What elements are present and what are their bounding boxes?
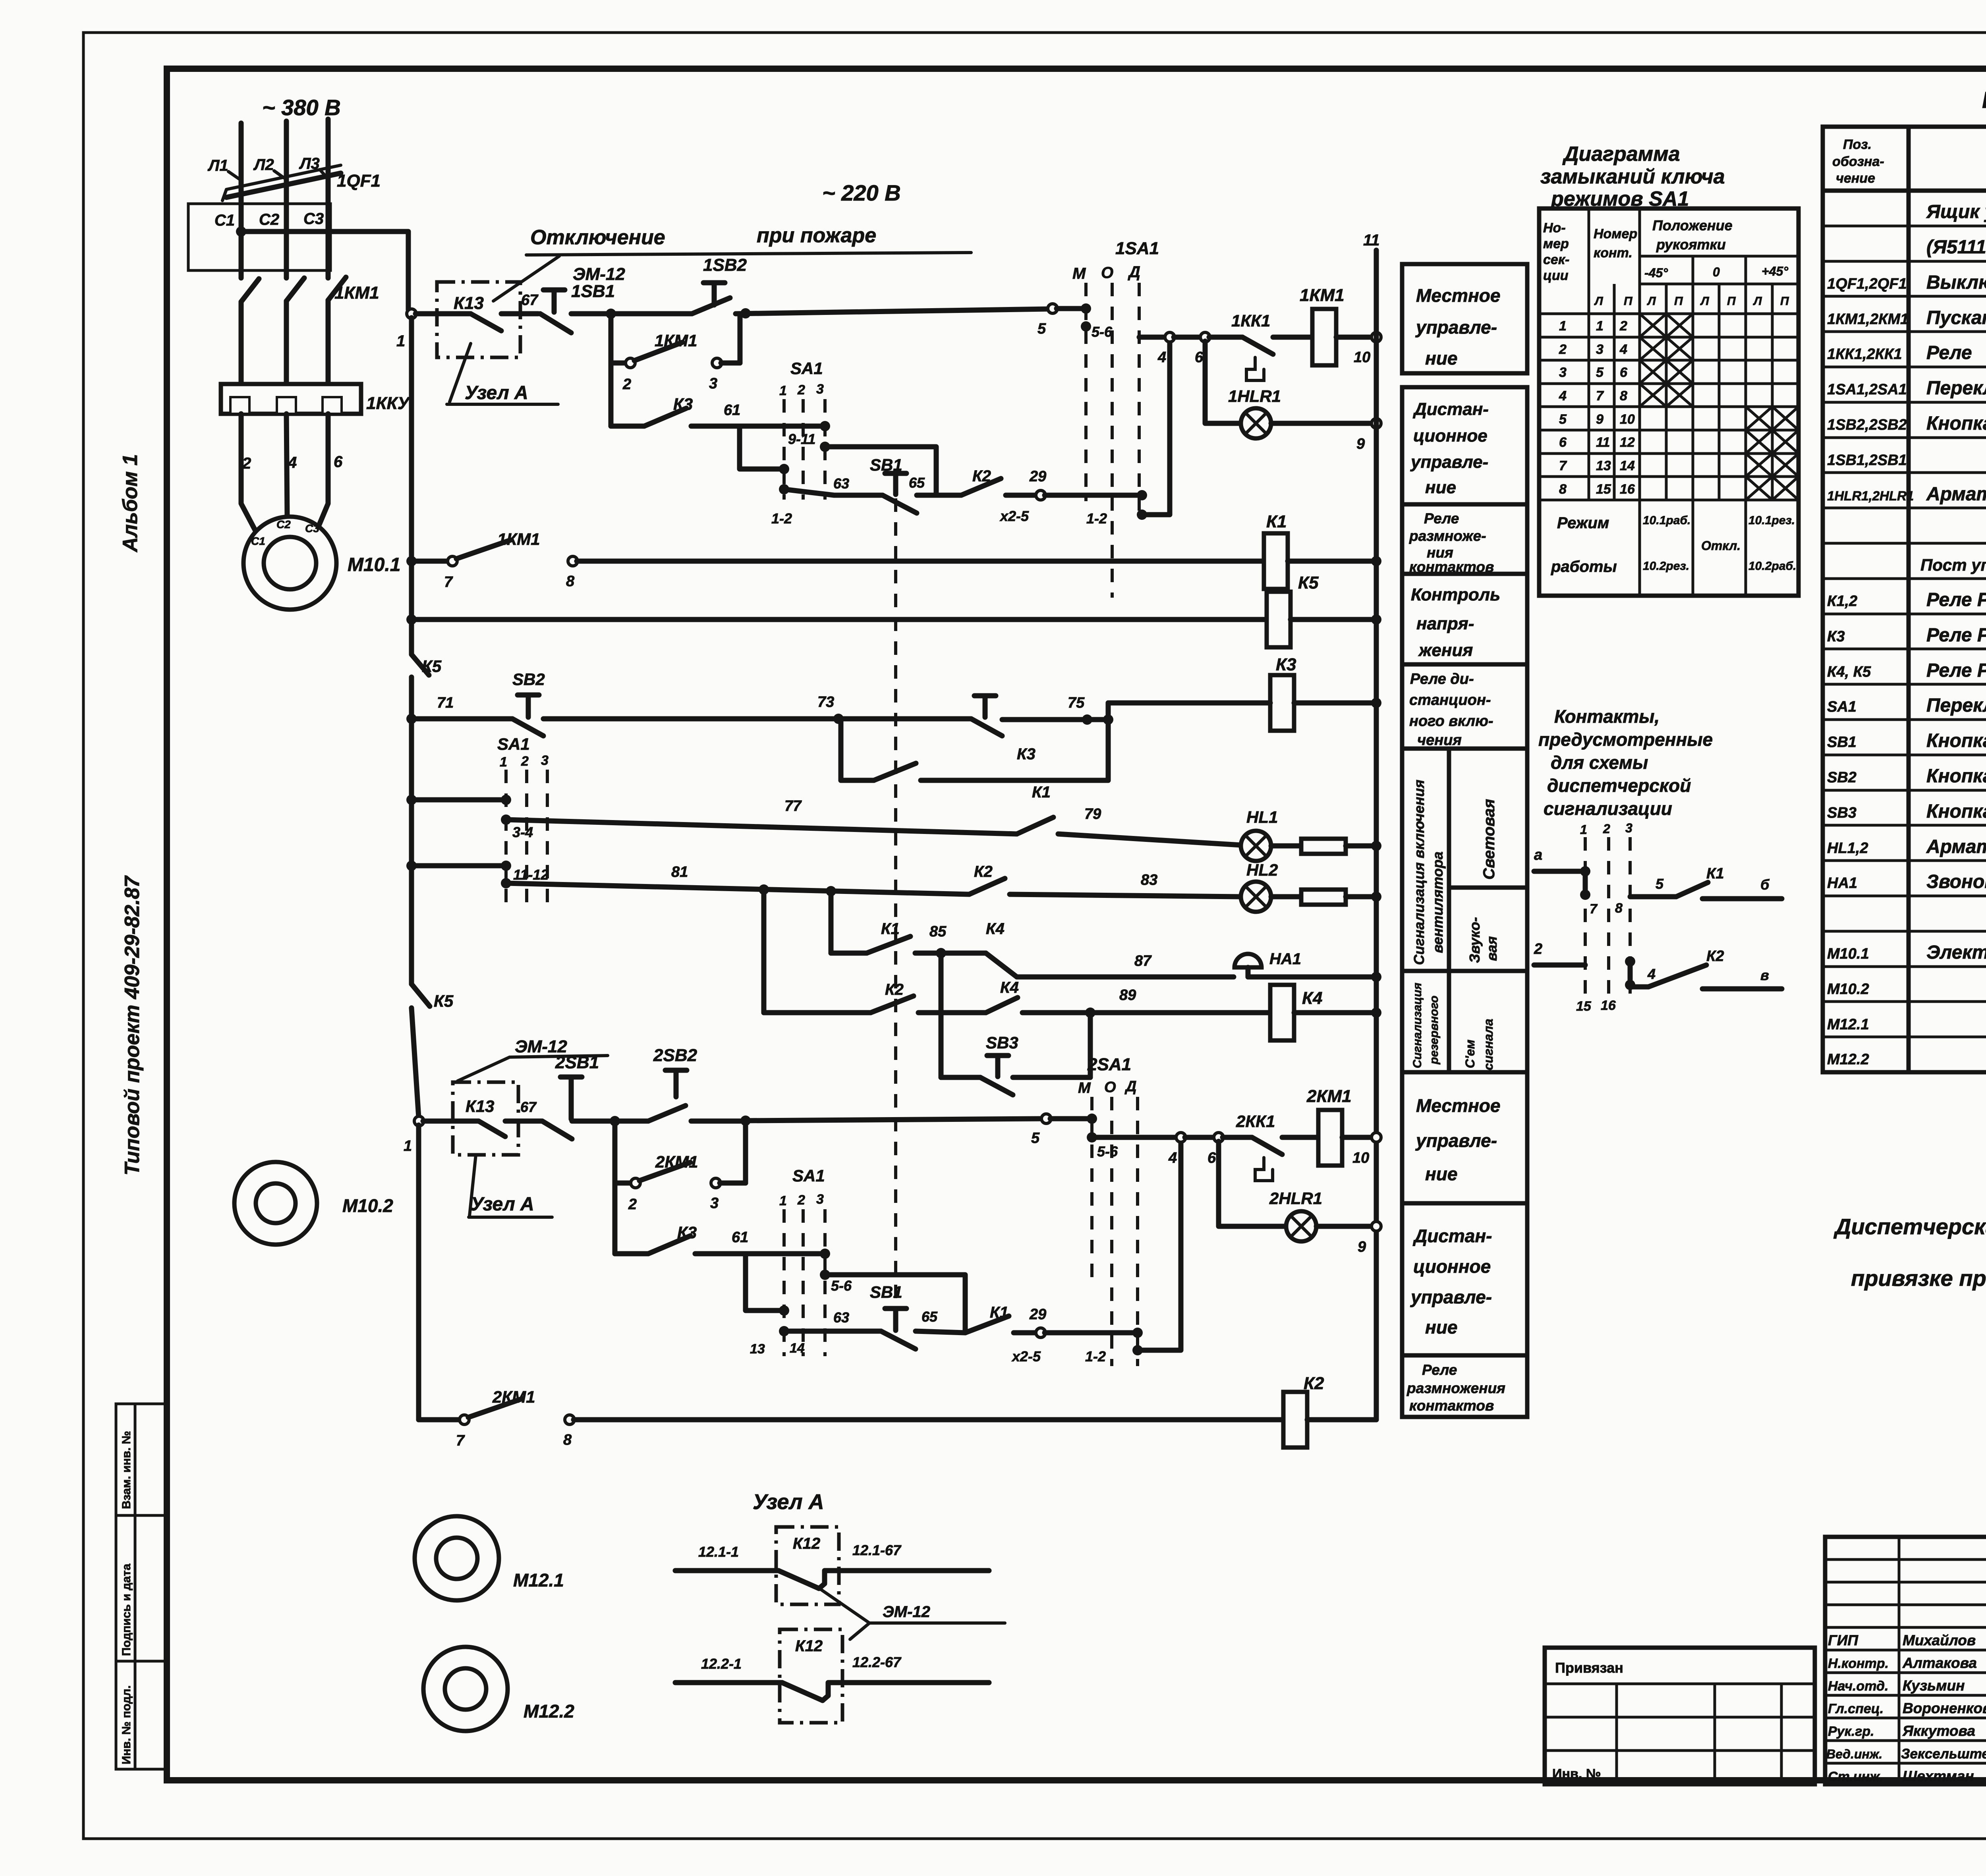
svg-text:управле-: управле- xyxy=(1415,1130,1497,1151)
label cell Svetovaya xyxy=(1449,886,1527,890)
svg-text:М10.1: М10.1 xyxy=(1827,946,1869,962)
svg-text:Кнопка КЕ- 011УЗ, исполн.: Кнопка КЕ- 011УЗ, исполн. 5 xyxy=(1926,766,1986,787)
svg-text:1КК1,2КК1: 1КК1,2КК1 xyxy=(1827,346,1902,363)
switch 2SA1 contact 1-2 xyxy=(1132,1328,1143,1338)
svg-text:Световая: Световая xyxy=(1480,799,1498,880)
svg-text:4: 4 xyxy=(1168,1150,1177,1166)
svg-text:для схемы: для схемы xyxy=(1551,752,1648,773)
svg-text:89: 89 xyxy=(1119,987,1136,1004)
svg-text:12.2-1: 12.2-1 xyxy=(701,1656,742,1672)
svg-text:63: 63 xyxy=(833,1309,849,1326)
svg-text:Кнопка КЕ- 011УЗ, исполн. 4: Кнопка КЕ- 011УЗ, исполн. 4 xyxy=(1926,801,1986,822)
svg-text:размноже-: размноже- xyxy=(1409,528,1486,544)
svg-text:4: 4 xyxy=(1619,342,1627,357)
svg-text:С'ем: С'ем xyxy=(1463,1039,1477,1068)
svg-text:С2: С2 xyxy=(276,518,291,531)
label box Rele razmnozheniya 1 xyxy=(1402,504,1527,574)
svg-text:71: 71 xyxy=(437,695,454,711)
svg-text:Звуко-: Звуко- xyxy=(1466,917,1483,963)
svg-text:6: 6 xyxy=(1620,365,1628,380)
svg-text:П: П xyxy=(1780,295,1789,308)
svg-text:5: 5 xyxy=(1656,876,1664,892)
svg-text:Л: Л xyxy=(1647,295,1656,308)
svg-text:2SB1: 2SB1 xyxy=(555,1053,599,1072)
svg-text:К13: К13 xyxy=(466,1097,495,1116)
svg-text:замыканий ключа: замыканий ключа xyxy=(1540,165,1725,188)
svg-text:0: 0 xyxy=(1713,265,1720,279)
svg-text:16: 16 xyxy=(1601,998,1616,1013)
svg-text:1SB1: 1SB1 xyxy=(571,282,615,301)
svg-text:2КМ1: 2КМ1 xyxy=(1306,1087,1352,1106)
svg-text:Выключатель: Выключатель xyxy=(1926,272,1986,293)
svg-text:Н.контр.: Н.контр. xyxy=(1828,1656,1889,1671)
svg-text:9: 9 xyxy=(1596,412,1603,427)
svg-text:К5: К5 xyxy=(434,992,454,1010)
thermal relay 1KK1 body xyxy=(221,384,361,414)
svg-text:Переключатель УП 5314-С398УЗ: Переключатель УП 5314-С398УЗ xyxy=(1926,695,1986,716)
diagram table frame xyxy=(1539,208,1799,596)
svg-text:Контакты,: Контакты, xyxy=(1554,706,1660,727)
node 9 lower xyxy=(1372,1222,1381,1231)
svg-text:10.1раб.: 10.1раб. xyxy=(1643,514,1690,527)
svg-text:ния: ния xyxy=(1427,544,1453,561)
mechanical link SB1 dashed xyxy=(894,498,897,1326)
svg-text:77: 77 xyxy=(784,798,802,814)
svg-text:1КМ1,2КМ1: 1КМ1,2КМ1 xyxy=(1827,311,1909,328)
svg-text:предусмотренные: предусмотренные xyxy=(1538,729,1713,750)
svg-text:8: 8 xyxy=(1559,482,1567,497)
svg-text:Шехтман: Шехтман xyxy=(1903,1768,1974,1784)
svg-text:Реле: Реле xyxy=(1422,1362,1457,1378)
svg-text:10.2рез.: 10.2рез. xyxy=(1643,560,1689,573)
signature table xyxy=(1825,1537,1986,1784)
svg-text:К2: К2 xyxy=(974,863,993,880)
svg-text:Реле РПУ-2-36220УЗБ , U ~ 220: Реле РПУ-2-36220УЗБ , U ~ 220 В xyxy=(1926,660,1986,681)
contactor 1KM1 main contact pole3 xyxy=(328,277,346,300)
svg-text:Но-: Но- xyxy=(1543,220,1566,235)
svg-text:3: 3 xyxy=(1596,342,1603,357)
svg-text:3: 3 xyxy=(710,1195,719,1212)
svg-text:Перечень: Перечень xyxy=(1982,87,1986,113)
svg-text:М12.1: М12.1 xyxy=(1827,1016,1869,1033)
node 1 lower xyxy=(414,1116,424,1126)
svg-text:29: 29 xyxy=(1029,468,1046,485)
svg-text:Кнопка: Кнопка xyxy=(1926,413,1986,434)
svg-text:3: 3 xyxy=(816,382,824,397)
switch SA1 contact 11-12 xyxy=(411,863,501,869)
svg-text:мер: мер xyxy=(1543,236,1569,251)
svg-text:х2-5: х2-5 xyxy=(1011,1348,1041,1365)
wire row 81 lamp HL2 xyxy=(506,883,969,894)
svg-text:13: 13 xyxy=(1596,458,1611,473)
privyazan table xyxy=(1545,1648,1815,1784)
svg-text:1: 1 xyxy=(404,1138,412,1154)
svg-text:1QF1: 1QF1 xyxy=(337,171,381,191)
svg-text:11-12: 11-12 xyxy=(513,867,549,883)
svg-text:1SB2: 1SB2 xyxy=(703,255,747,275)
svg-text:жения: жения xyxy=(1418,641,1473,660)
svg-text:К4: К4 xyxy=(986,920,1005,938)
svg-text:Местное: Местное xyxy=(1416,1095,1500,1116)
svg-text:Пост управления вентиляторами: Пост управления вентиляторами 1ОПУ(У2ПУ) xyxy=(1920,556,1986,574)
svg-text:М: М xyxy=(1072,265,1086,282)
svg-text:при пожаре: при пожаре xyxy=(757,224,876,247)
svg-text:Узел А: Узел А xyxy=(753,1490,824,1514)
svg-text:М10.2: М10.2 xyxy=(1827,981,1869,998)
svg-text:Алтакова: Алтакова xyxy=(1902,1655,1977,1671)
svg-text:Отключение: Отключение xyxy=(530,226,665,249)
node 5 xyxy=(1048,304,1057,313)
wire phase L3 stub xyxy=(326,119,331,181)
switch 1SA1 contact 1-2 xyxy=(1137,490,1147,500)
svg-text:Пускатель: Пускатель xyxy=(1926,307,1986,328)
margin stamp box Vzam inv xyxy=(116,1404,167,1515)
node J2 xyxy=(740,308,751,318)
svg-text:Вед.инж.: Вед.инж. xyxy=(1826,1747,1882,1761)
relay K13 fire box (uzel A) xyxy=(437,282,520,357)
svg-text:SВ3: SВ3 xyxy=(1827,805,1857,821)
svg-text:2: 2 xyxy=(797,382,805,398)
wire branch to control xyxy=(236,226,246,237)
svg-text:65: 65 xyxy=(922,1309,938,1325)
svg-text:М12.1: М12.1 xyxy=(513,1570,564,1590)
contact K5 upper xyxy=(411,654,429,675)
svg-text:5-6: 5-6 xyxy=(1092,324,1113,340)
svg-text:29: 29 xyxy=(1029,1306,1046,1323)
node 10 lower xyxy=(1372,1133,1381,1142)
svg-text:Контроль: Контроль xyxy=(1411,585,1500,604)
svg-text:Л1: Л1 xyxy=(207,157,228,174)
svg-text:ционное: ционное xyxy=(1413,426,1488,446)
svg-text:Зексельштейн: Зексельштейн xyxy=(1901,1746,1986,1762)
svg-text:М12.2: М12.2 xyxy=(1827,1051,1869,1068)
svg-text:Инв. № подл.: Инв. № подл. xyxy=(120,1685,133,1764)
svg-text:диспетчерской: диспетчерской xyxy=(1547,775,1691,796)
svg-text:1SВ1,2SВ1: 1SВ1,2SВ1 xyxy=(1827,452,1907,469)
svg-text:Д: Д xyxy=(1128,263,1140,281)
svg-text:14: 14 xyxy=(790,1341,805,1356)
svg-text:Л: Л xyxy=(1700,295,1710,308)
svg-text:1: 1 xyxy=(1596,318,1603,334)
svg-text:1: 1 xyxy=(779,383,787,398)
svg-text:Сигнализация: Сигнализация xyxy=(1411,982,1424,1068)
contactor 1KM1 main contact pole1 xyxy=(241,279,259,302)
svg-text:1-2: 1-2 xyxy=(1086,510,1107,527)
svg-text:Режим: Режим xyxy=(1557,514,1609,532)
wire jog to SA1 contact 1-2 xyxy=(740,426,780,469)
node 29 xyxy=(1036,490,1045,500)
label box Mestnoe upravlenie 2 xyxy=(1402,1072,1527,1203)
node 9 xyxy=(1372,419,1381,428)
svg-text:75: 75 xyxy=(1068,695,1085,711)
svg-text:12.1-67: 12.1-67 xyxy=(852,1542,902,1558)
svg-text:управле-: управле- xyxy=(1410,452,1488,472)
svg-text:С3: С3 xyxy=(305,522,319,535)
switch SA1 contact 3-4 xyxy=(411,797,501,803)
svg-text:К4, К5: К4, К5 xyxy=(1827,664,1871,680)
svg-text:О: О xyxy=(1104,1079,1116,1096)
svg-text:5: 5 xyxy=(1031,1130,1040,1146)
svg-text:3: 3 xyxy=(1625,821,1632,835)
contact K2 dispatch xyxy=(1630,984,1648,990)
svg-text:ние: ние xyxy=(1425,478,1456,497)
svg-text:напря-: напря- xyxy=(1416,614,1474,633)
contact K1 dispatch xyxy=(1630,894,1676,899)
svg-text:HL2: HL2 xyxy=(1246,861,1278,879)
svg-text:НL1,2: НL1,2 xyxy=(1827,840,1868,857)
svg-text:Сигнализация включения: Сигнализация включения xyxy=(1411,780,1427,965)
svg-text:х2-5: х2-5 xyxy=(999,508,1029,524)
node 4 lower xyxy=(1176,1133,1186,1142)
button SB2 contact 2 xyxy=(838,716,971,722)
switch 2SA1 contact 5-6 xyxy=(1087,1114,1097,1124)
svg-text:Реле: Реле xyxy=(1424,510,1459,527)
node J1 lower xyxy=(610,1116,620,1126)
svg-text:ЭМ-12: ЭМ-12 xyxy=(883,1603,930,1621)
svg-text:15: 15 xyxy=(1576,999,1592,1014)
svg-text:Номер: Номер xyxy=(1594,226,1637,241)
svg-text:1ККУ: 1ККУ xyxy=(366,394,411,413)
svg-text:размножения: размножения xyxy=(1406,1380,1505,1396)
svg-text:8: 8 xyxy=(1615,901,1623,916)
node 6 xyxy=(1200,332,1210,342)
svg-text:~ 220 В: ~ 220 В xyxy=(822,180,901,205)
svg-text:ние: ние xyxy=(1425,348,1457,369)
svg-text:1КМ1: 1КМ1 xyxy=(334,283,379,303)
svg-text:ции: ции xyxy=(1543,268,1569,283)
svg-text:в: в xyxy=(1760,967,1769,983)
svg-text:61: 61 xyxy=(732,1229,748,1246)
svg-text:С1: С1 xyxy=(214,212,235,229)
svg-text:6: 6 xyxy=(1207,1150,1216,1166)
svg-text:ного вклю-: ного вклю- xyxy=(1409,713,1493,730)
svg-text:сек-: сек- xyxy=(1543,252,1569,267)
svg-text:К5: К5 xyxy=(422,657,442,676)
svg-text:SВ1: SВ1 xyxy=(1827,734,1857,751)
svg-text:Диспетчерская сигнализация р: Диспетчерская сигнализация решается при xyxy=(1833,1214,1986,1239)
svg-text:85: 85 xyxy=(929,923,947,940)
svg-text:7: 7 xyxy=(1559,458,1567,473)
svg-text:Арматура светосигнальная: Арматура светосигнальная xyxy=(1926,484,1986,505)
svg-text:Рук.гр.: Рук.гр. xyxy=(1828,1724,1874,1739)
svg-text:67: 67 xyxy=(520,1099,537,1115)
svg-text:обозна-: обозна- xyxy=(1832,154,1884,169)
svg-text:П: П xyxy=(1727,295,1736,308)
svg-text:управле-: управле- xyxy=(1415,317,1497,338)
wire rail B xyxy=(1139,335,1166,340)
svg-text:Реле: Реле xyxy=(1926,342,1972,363)
svg-text:Типовой проект 409-29-82.87: Типовой проект 409-29-82.87 xyxy=(121,875,144,1175)
svg-text:НА1: НА1 xyxy=(1269,950,1301,968)
svg-text:Л2: Л2 xyxy=(253,156,274,174)
svg-text:2: 2 xyxy=(797,1193,805,1208)
svg-text:Звонок ЗВП-220-М4: Звонок ЗВП-220-М4 xyxy=(1926,871,1986,892)
svg-text:63: 63 xyxy=(833,475,849,492)
svg-text:Узел А: Узел А xyxy=(471,1194,534,1215)
svg-text:привязке проекта.: привязке проекта. xyxy=(1851,1266,1986,1291)
wire phase L2 stub xyxy=(284,121,289,183)
svg-text:Дистан-: Дистан- xyxy=(1412,400,1489,419)
svg-text:2: 2 xyxy=(1534,941,1542,957)
svg-text:2: 2 xyxy=(1619,318,1627,334)
svg-text:К2: К2 xyxy=(885,981,904,998)
svg-text:ние: ние xyxy=(1425,1317,1457,1338)
svg-text:К5: К5 xyxy=(1298,573,1319,593)
left bus vertical xyxy=(409,318,414,654)
svg-text:5: 5 xyxy=(1559,412,1567,427)
svg-text:11: 11 xyxy=(1363,232,1380,249)
svg-text:К12: К12 xyxy=(793,1535,820,1552)
svg-text:К4: К4 xyxy=(1000,979,1019,996)
resistor row81 xyxy=(1271,894,1301,899)
svg-text:1QF1,2QF1: 1QF1,2QF1 xyxy=(1827,276,1907,292)
svg-text:SB3: SB3 xyxy=(986,1033,1018,1052)
svg-text:5: 5 xyxy=(1596,365,1604,380)
svg-text:83: 83 xyxy=(1141,872,1157,888)
svg-text:1SВ2,2SВ2: 1SВ2,2SВ2 xyxy=(1827,417,1907,433)
svg-text:1: 1 xyxy=(1559,318,1567,334)
svg-text:Реле ди-: Реле ди- xyxy=(1410,671,1474,687)
svg-text:12: 12 xyxy=(1620,435,1635,450)
wire drop to row85 xyxy=(829,891,834,953)
svg-text:3: 3 xyxy=(709,375,717,392)
breaker box xyxy=(188,204,330,270)
svg-text:С3: С3 xyxy=(303,210,324,228)
svg-text:1: 1 xyxy=(1580,822,1587,837)
svg-text:81: 81 xyxy=(671,864,688,880)
motor M10.2 xyxy=(234,1162,317,1245)
svg-text:1КК1: 1КК1 xyxy=(1231,311,1270,330)
node 29 lower xyxy=(1036,1328,1045,1338)
svg-text:9-11: 9-11 xyxy=(788,431,815,447)
svg-text:3-4: 3-4 xyxy=(512,824,533,840)
svg-text:1-2: 1-2 xyxy=(1085,1348,1106,1365)
svg-text:К1: К1 xyxy=(1032,784,1051,801)
svg-text:К4: К4 xyxy=(1302,988,1323,1008)
svg-text:2SA1: 2SA1 xyxy=(1087,1055,1131,1074)
svg-text:М10.1: М10.1 xyxy=(348,554,400,575)
svg-text:М12.2: М12.2 xyxy=(524,1701,574,1722)
svg-text:73: 73 xyxy=(817,694,834,710)
svg-text:Гл.спец.: Гл.спец. xyxy=(1828,1701,1884,1716)
wire drop to row89 xyxy=(761,890,767,1013)
contact K13 xyxy=(415,311,471,317)
svg-text:9: 9 xyxy=(1358,1239,1366,1255)
svg-text:Подпись и дата: Подпись и дата xyxy=(120,1563,133,1656)
svg-text:Яккутова: Яккутова xyxy=(1902,1723,1975,1739)
svg-text:П: П xyxy=(1624,295,1633,308)
svg-text:6: 6 xyxy=(1195,349,1204,366)
svg-text:управле-: управле- xyxy=(1410,1287,1492,1307)
svg-text:Ст.инж.: Ст.инж. xyxy=(1828,1769,1884,1784)
svg-text:4: 4 xyxy=(1647,966,1656,982)
svg-text:Л: Л xyxy=(1753,295,1762,308)
svg-text:1КМ1: 1КМ1 xyxy=(497,530,540,548)
node J1 xyxy=(606,309,616,319)
switch SA1 contact 9-11 xyxy=(820,421,830,431)
svg-text:1: 1 xyxy=(396,332,405,350)
relay K12 box 1 xyxy=(776,1527,839,1604)
resistor row77 xyxy=(1271,843,1301,849)
svg-text:Михайлов: Михайлов xyxy=(1903,1632,1976,1648)
svg-text:С2: С2 xyxy=(259,211,279,228)
svg-text:SA1: SA1 xyxy=(790,359,823,378)
junction dots on left bus xyxy=(406,556,417,566)
svg-text:контактов: контактов xyxy=(1409,1397,1494,1414)
element table frame xyxy=(1823,127,1986,1072)
svg-text:87: 87 xyxy=(1134,953,1152,969)
wire jog to SA1 contact 13-14 xyxy=(746,1254,780,1310)
svg-text:Переключатель: Переключатель xyxy=(1926,378,1986,399)
svg-text:3: 3 xyxy=(816,1192,824,1207)
svg-text:2: 2 xyxy=(628,1196,637,1213)
label box Kontrol napryazheniya xyxy=(1402,574,1527,664)
svg-text:1КМ1: 1КМ1 xyxy=(1300,286,1345,305)
svg-text:Поз.: Поз. xyxy=(1843,137,1872,152)
svg-text:61: 61 xyxy=(724,402,740,419)
svg-text:7: 7 xyxy=(1590,901,1598,917)
svg-text:Положение: Положение xyxy=(1652,217,1733,234)
svg-text:Откл.: Откл. xyxy=(1701,538,1741,553)
label box Distantsionnoe upravlenie 2 xyxy=(1402,1203,1527,1355)
node 5 lower xyxy=(1041,1114,1051,1123)
svg-text:Вороненков: Вороненков xyxy=(1903,1700,1986,1716)
svg-text:Электродвигатель: Электродвигатель xyxy=(1926,942,1986,963)
svg-text:НА1: НА1 xyxy=(1827,875,1857,892)
svg-text:1SA1: 1SA1 xyxy=(1115,239,1159,258)
svg-text:Диаграмма: Диаграмма xyxy=(1562,143,1680,166)
svg-text:станцион-: станцион- xyxy=(1409,692,1491,708)
svg-text:10.2раб.: 10.2раб. xyxy=(1748,560,1796,573)
svg-text:Узел А: Узел А xyxy=(465,382,528,403)
svg-text:SB1: SB1 xyxy=(870,1283,902,1301)
svg-text:HL1: HL1 xyxy=(1246,808,1278,826)
svg-text:5-6: 5-6 xyxy=(1097,1143,1118,1160)
svg-text:Арматура АМЕ321221У2 , U~ 220: Арматура АМЕ321221У2 , U~ 220В xyxy=(1926,836,1986,857)
svg-text:Дистан-: Дистан- xyxy=(1412,1226,1492,1246)
svg-text:9: 9 xyxy=(1356,436,1365,452)
svg-text:13: 13 xyxy=(750,1341,765,1357)
svg-text:7: 7 xyxy=(1596,388,1604,403)
svg-text:рукоятки: рукоятки xyxy=(1656,236,1726,253)
wire motor lead 3 xyxy=(318,414,328,528)
svg-text:П: П xyxy=(1674,295,1683,308)
svg-text:SВ2: SВ2 xyxy=(1827,769,1857,786)
switch SA1 contact 5-6 lower xyxy=(820,1249,830,1259)
svg-text:резервного: резервного xyxy=(1428,996,1441,1065)
svg-text:Л: Л xyxy=(1594,295,1603,308)
svg-text:2: 2 xyxy=(1603,822,1610,836)
svg-text:Кузьмин: Кузьмин xyxy=(1903,1677,1965,1694)
svg-text:С1: С1 xyxy=(251,535,265,547)
motor M10.1 xyxy=(243,517,336,610)
node 6 lower xyxy=(1214,1133,1223,1142)
svg-text:2: 2 xyxy=(1559,342,1567,357)
svg-text:SB2: SB2 xyxy=(512,670,545,689)
svg-text:15: 15 xyxy=(1596,482,1611,497)
svg-text:1HLR1: 1HLR1 xyxy=(1228,387,1281,405)
svg-text:К2: К2 xyxy=(1706,948,1724,965)
svg-text:сигнала: сигнала xyxy=(1481,1019,1495,1070)
svg-text:2SB2: 2SB2 xyxy=(653,1046,697,1065)
svg-text:65: 65 xyxy=(909,475,925,491)
svg-text:67: 67 xyxy=(521,292,539,309)
wire phase L1 stub xyxy=(239,123,244,185)
svg-text:6: 6 xyxy=(334,453,343,471)
svg-text:SA1: SA1 xyxy=(497,735,530,753)
svg-text:7: 7 xyxy=(444,574,453,591)
svg-text:1НLR1,2НLR1: 1НLR1,2НLR1 xyxy=(1827,488,1914,503)
